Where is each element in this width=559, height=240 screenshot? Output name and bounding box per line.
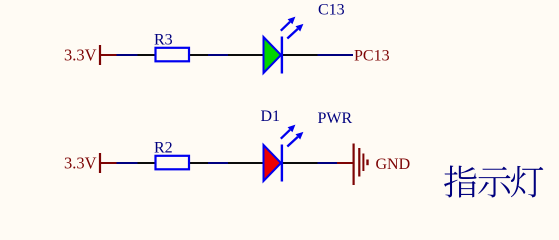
resistor R2 pin 2 <box>190 162 209 164</box>
wire (bottom row: LED cathode to GND) <box>318 162 338 164</box>
LED D1 cathode pin <box>283 162 318 164</box>
svg-text:R3: R3 <box>154 32 173 49</box>
wire (R2 pin 2 to LED D1 anode) <box>208 162 229 164</box>
LED C13 anode pin <box>228 54 263 56</box>
LED D1 triangle body <box>264 145 282 181</box>
svg-text:3.3V: 3.3V <box>64 154 97 173</box>
LED C13 triangle body <box>264 37 282 73</box>
wire (top row: LED cathode to net label PC13) <box>318 54 354 56</box>
resistor R2 pin 1 <box>138 162 156 164</box>
resistor R3 body <box>156 48 190 62</box>
LED C13 cathode pin <box>283 54 318 56</box>
svg-text:C13: C13 <box>318 1 345 18</box>
svg-text:PWR: PWR <box>318 110 353 127</box>
resistor R3 pin 1 <box>138 54 156 56</box>
svg-text:R2: R2 <box>154 139 173 156</box>
svg-text:PC13: PC13 <box>354 47 390 64</box>
wire (3.3V power port to R2 pin 1) <box>117 162 139 164</box>
power port 3.3V (top) <box>100 45 117 65</box>
power port 3.3V (bottom) <box>100 153 117 173</box>
LED D1 light arrow 1 <box>281 130 290 139</box>
svg-text:3.3V: 3.3V <box>64 46 97 65</box>
LED D1 cathode bar <box>281 145 283 182</box>
resistor R3 pin 2 <box>190 54 209 56</box>
wire (3.3V power port to R3 pin 1) <box>117 54 139 56</box>
ground symbol GND <box>337 144 368 186</box>
LED D1 light arrow 2 <box>287 137 298 147</box>
caption 指示灯 <box>444 166 543 198</box>
resistor R2 body <box>156 156 190 170</box>
LED D1 anode pin <box>228 162 263 164</box>
LED C13 cathode bar <box>281 37 283 74</box>
svg-text:D1: D1 <box>261 108 281 125</box>
wire (R3 pin 2 to LED C13 anode) <box>208 54 229 56</box>
svg-text:GND: GND <box>376 156 411 173</box>
LED C13 light arrow 1 <box>281 22 290 31</box>
LED C13 light arrow 2 <box>287 29 298 39</box>
